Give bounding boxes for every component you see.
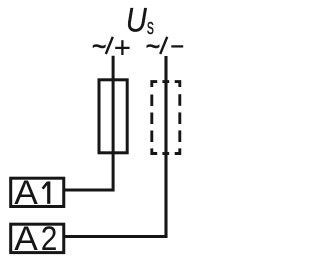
label A2 [14,219,57,258]
svg-text:~: ~ [92,29,107,63]
label A1 [14,174,49,211]
svg-text:2: 2 [41,219,58,257]
wire from ~/+ terminal down through fuse to terminal A1 [64,56,113,190]
terminal box A1 [11,178,64,206]
node Us (supply voltage label) [126,0,154,39]
terminal box A2 [11,224,64,252]
svg-text:~: ~ [146,29,161,63]
svg-text:U: U [126,0,148,39]
fuse F1 (solid rectangle on + line) [99,80,127,153]
wire from ~/- terminal down to terminal A2 [64,56,166,237]
svg-text:A: A [14,220,38,257]
svg-text:A: A [14,174,38,211]
node ~/+ (positive/AC terminal label) [92,29,130,63]
node ~/- (negative/AC terminal label) [146,29,184,63]
fuse F2 optional (dashed rectangle on - line) [152,82,180,154]
